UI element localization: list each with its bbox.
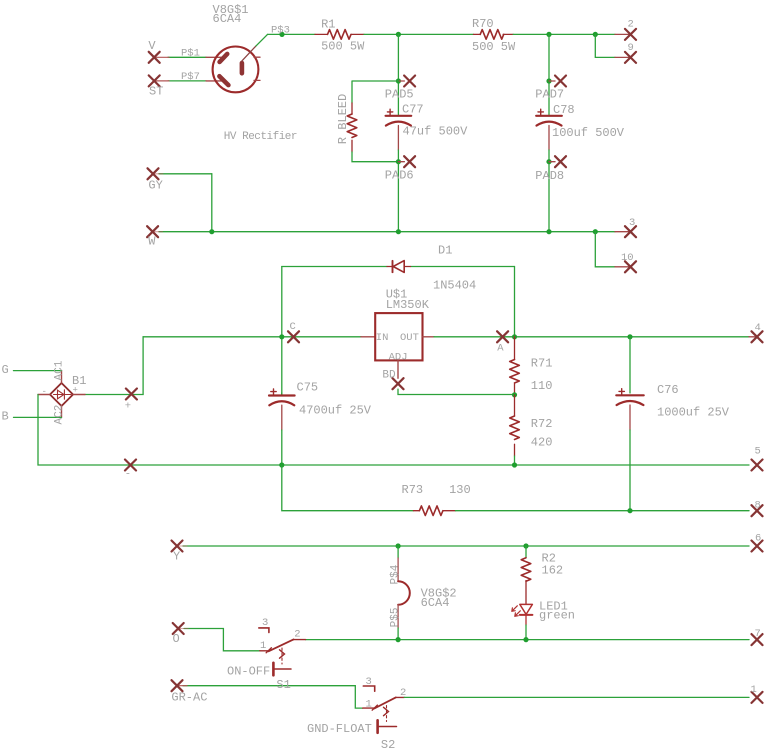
switch S2 pin 3 [363, 686, 374, 691]
svg-text:PAD8: PAD8 [535, 169, 564, 183]
junction rail7-V8G$2 [396, 637, 401, 642]
capacitor C76 upper wire [629, 337, 631, 393]
svg-text:R72: R72 [531, 417, 553, 431]
wire net O [178, 629, 260, 651]
pin 1 X [752, 692, 763, 703]
pin PAD8 lead [549, 161, 555, 163]
junction rail7-LED [523, 637, 528, 642]
wire P$3 diagonal [256, 34, 268, 46]
wire R.BLEED bottom [352, 152, 398, 162]
svg-text:R71: R71 [531, 357, 553, 371]
svg-text:3: 3 [262, 617, 268, 629]
wire net Y rail [177, 545, 749, 547]
wire to pin 10 [595, 232, 615, 267]
svg-text:2: 2 [628, 19, 634, 31]
diode D1 [387, 261, 411, 273]
svg-text:S1: S1 [276, 678, 290, 692]
switch S1 lever [269, 639, 294, 651]
svg-text:6: 6 [755, 533, 761, 545]
junction W-C77 [396, 229, 401, 234]
net label X GY [148, 168, 159, 179]
regulator U1 LM350K box [375, 313, 422, 360]
bridge B1 pin AC1 [61, 371, 63, 383]
capacitor C75 plus [271, 389, 276, 394]
wire net rail7 [306, 639, 750, 641]
pin 4 X [752, 331, 763, 342]
pin 3 lead [615, 231, 631, 233]
capacitor C75 lower lead [281, 405, 283, 430]
bridge B1 pin AC2 [61, 406, 63, 417]
svg-text:7: 7 [755, 628, 761, 640]
svg-text:PAD7: PAD7 [535, 88, 564, 102]
resistor R72 [510, 395, 520, 465]
capacitor C78 bottom plate arc [537, 122, 562, 126]
wire P$3 to R1 [268, 33, 316, 35]
svg-text:BD: BD [382, 370, 396, 382]
pad PAD7 X [555, 76, 566, 87]
capacitor C77 lower lead [397, 126, 399, 151]
svg-text:110: 110 [531, 379, 553, 393]
net label X V [149, 52, 160, 63]
net label X W [147, 226, 158, 237]
wire D1 right drop [514, 267, 516, 337]
svg-text:PAD6: PAD6 [385, 169, 414, 183]
wire mid rail left [143, 336, 361, 338]
capacitor C75 top plate [269, 394, 295, 396]
svg-text:O: O [173, 632, 180, 646]
capacitor C76 plus [619, 389, 624, 394]
net label X minus [125, 460, 136, 471]
svg-text:ON-OFF: ON-OFF [227, 665, 270, 679]
wire net G [14, 370, 62, 372]
regulator U1 pin ADJ lead [397, 360, 399, 378]
switch S1 actuator [273, 663, 291, 676]
pin P$7 of V8G$1 [206, 80, 224, 82]
bridge B1 pin plus [73, 394, 85, 396]
switch S2 actuator [378, 720, 397, 733]
junction C75 bottom [279, 462, 284, 467]
svg-text:Y: Y [173, 550, 180, 564]
bridge B1 internal diode [54, 390, 72, 399]
svg-text:1000uf 25V: 1000uf 25V [657, 406, 730, 420]
svg-text:S2: S2 [381, 738, 395, 750]
junction W-C78 [546, 229, 551, 234]
switch S1 pin 2 [294, 639, 306, 641]
switch S1 spring [280, 650, 285, 658]
junction PAD8 [546, 159, 551, 164]
svg-text:GR-AC: GR-AC [171, 690, 207, 704]
junction OUT-C76 [627, 334, 632, 339]
svg-text:R73: R73 [402, 483, 424, 497]
svg-text:2: 2 [294, 629, 300, 641]
svg-text:500 5W: 500 5W [472, 40, 516, 54]
wire mid rail right [434, 336, 749, 338]
wire bridge plus riser [85, 337, 143, 395]
svg-text:R1: R1 [321, 18, 335, 32]
capacitor C76 bottom plate arc [617, 401, 644, 405]
junction pins 2-9 [593, 32, 598, 37]
pin 4 lead [749, 336, 757, 338]
net label X O [173, 623, 184, 634]
switch S2 link dashed [386, 706, 388, 722]
switch S2 spring [384, 707, 389, 715]
svg-text:C78: C78 [553, 103, 575, 117]
tube V8G$2 pin P$5 [397, 605, 399, 640]
capacitor C78 lower lead [548, 126, 550, 151]
svg-text:P$3: P$3 [271, 25, 290, 37]
svg-text:C75: C75 [297, 381, 319, 395]
svg-text:5: 5 [755, 445, 761, 457]
tube V8G$1 anode bar [240, 63, 245, 73]
capacitor C77 top plate [386, 115, 412, 117]
wire R73 riser [282, 465, 414, 511]
svg-text:130: 130 [449, 483, 471, 497]
svg-text:R BLEED: R BLEED [336, 94, 350, 144]
resistor R1 [315, 30, 364, 40]
capacitor C75 bottom plate arc [269, 401, 294, 405]
pin PAD7 lead [549, 80, 555, 82]
tube V8G$2 heater arc [398, 581, 410, 604]
junction PAD6 [396, 159, 401, 164]
svg-text:C76: C76 [657, 383, 679, 397]
svg-text:1: 1 [751, 684, 757, 696]
pin 10 lead [615, 266, 631, 268]
junction R72 bottom [512, 462, 517, 467]
svg-text:W: W [148, 235, 156, 249]
wire GY drop [211, 174, 213, 232]
svg-text:6CA4: 6CA4 [421, 596, 450, 610]
junction Y-R2 [523, 543, 528, 548]
capacitor C76 top plate [616, 394, 643, 396]
junction GY-W [209, 229, 214, 234]
svg-text:-: - [42, 387, 47, 397]
svg-text:HV Rectifier: HV Rectifier [224, 131, 297, 143]
resistor R71 [510, 337, 520, 395]
svg-text:P$1: P$1 [181, 47, 200, 59]
regulator U1 pin OUT lead [423, 336, 435, 338]
wire C75 to minus rail [281, 430, 283, 465]
pad PAD5 X [404, 76, 415, 87]
wire D1 left drop [281, 267, 283, 395]
svg-text:3: 3 [366, 676, 372, 688]
svg-text:C77: C77 [402, 103, 424, 117]
svg-text:+: + [125, 401, 131, 413]
wire net ST to tube P$7 [154, 80, 206, 82]
net label X GR-AC [172, 680, 183, 691]
wire R1 to C77 node [364, 33, 474, 35]
net label X Y [172, 541, 183, 552]
pin 9 lead [615, 56, 631, 58]
junction Y-V8G$2 [396, 543, 401, 548]
junction C76 bottom [627, 508, 632, 513]
wire D1 rail [282, 266, 515, 268]
svg-text:OUT: OUT [400, 332, 419, 344]
pin 9 X [625, 52, 636, 63]
switch S2 pin 2 [396, 696, 405, 698]
wire R70 to pin2 [513, 33, 615, 35]
svg-text:IN: IN [376, 332, 389, 344]
bridge B1 diamond [50, 383, 73, 406]
svg-text:C: C [290, 321, 296, 333]
svg-text:10: 10 [621, 252, 634, 264]
pin BD X [393, 378, 404, 389]
svg-text:GND-FLOAT: GND-FLOAT [307, 722, 372, 736]
svg-text:R70: R70 [472, 17, 494, 31]
wire C78 to PAD8 [548, 150, 550, 232]
wire net W rail [153, 231, 615, 233]
tube V8G$1 right stub pins [254, 57, 260, 80]
svg-text:PAD5: PAD5 [385, 87, 414, 101]
net label X plus [126, 389, 137, 400]
switch S1 pin 3 [259, 628, 269, 633]
svg-text:V: V [148, 39, 156, 53]
junction PAD5 [396, 78, 401, 83]
wire C77 column upper [397, 34, 399, 114]
capacitor C78 plus [538, 109, 543, 114]
pad PAD8 X [555, 156, 566, 167]
wire R73 to pin 8 [456, 510, 750, 512]
wire net GR-AC [177, 686, 363, 708]
junction pins 3-10 [593, 229, 598, 234]
wire minus rail [38, 395, 749, 466]
LED LED1 emission arrows [512, 606, 521, 617]
svg-text:1: 1 [260, 640, 266, 652]
svg-text:100uf 500V: 100uf 500V [552, 126, 625, 140]
tube V8G$1 heater bar lower [219, 76, 228, 85]
bridge B1 pin minus [38, 394, 50, 396]
net label X C [288, 331, 299, 342]
pin P$3 diagonal lead [242, 46, 256, 61]
svg-text:500 5W: 500 5W [321, 40, 365, 54]
svg-text:2: 2 [400, 687, 406, 699]
svg-text:1N5404: 1N5404 [433, 279, 476, 293]
capacitor C75 wire upper [281, 393, 283, 395]
svg-text:P$4: P$4 [390, 564, 402, 584]
wire C78 column upper [548, 34, 550, 114]
svg-text:8: 8 [755, 500, 761, 512]
svg-text:4: 4 [755, 322, 761, 334]
wire to pin 9 [595, 34, 615, 57]
junction C78 top [546, 32, 551, 37]
pin PAD5 lead [398, 80, 404, 82]
net label X A [497, 331, 508, 342]
svg-text:LM350K: LM350K [386, 298, 430, 312]
pin 10 X [625, 261, 636, 272]
svg-text:162: 162 [542, 564, 564, 578]
junction PAD7 [546, 78, 551, 83]
svg-text:ST: ST [149, 85, 163, 99]
switch S1 link dashed [281, 648, 283, 664]
capacitor C76 lower lead [629, 405, 631, 430]
svg-text:47uf 500V: 47uf 500V [403, 125, 469, 139]
pad PAD6 X [404, 156, 415, 167]
resistor R2 [521, 546, 531, 604]
regulator U1 pin IN lead [361, 336, 375, 338]
net label X ST [149, 75, 160, 86]
svg-text:B: B [2, 410, 9, 424]
switch S2 pin 1 [363, 705, 378, 710]
svg-text:P$7: P$7 [181, 71, 200, 83]
svg-text:4700uf 25V: 4700uf 25V [299, 404, 372, 418]
svg-text:3: 3 [629, 217, 635, 229]
wire R.BLEED top [352, 81, 398, 103]
tube V8G$1 heater bar upper [220, 54, 228, 62]
svg-text:-: - [125, 469, 131, 481]
switch S2 lever [374, 697, 395, 708]
svg-text:6CA4: 6CA4 [213, 12, 242, 26]
pin PAD6 lead [398, 161, 404, 163]
svg-text:9: 9 [628, 42, 634, 54]
tube V8G$2 pin P$4 [397, 546, 399, 581]
wire net GY [153, 173, 212, 175]
wire C76 to R73 rail [629, 430, 631, 511]
junction R71-R72 [512, 392, 517, 397]
junction C77 top [396, 32, 401, 37]
LED LED1 [520, 604, 533, 625]
wire LED to rail7 [525, 625, 527, 640]
pin 8 X [752, 505, 763, 516]
capacitor C78 top plate [536, 115, 562, 117]
pin 5 X [752, 460, 763, 471]
wire net B [14, 416, 62, 418]
svg-text:P$5: P$5 [390, 607, 402, 627]
svg-text:green: green [539, 608, 575, 622]
switch S1 pin 1 [260, 648, 272, 653]
tube V8G$1 envelope circle [213, 47, 259, 93]
pin P$1 of V8G$1 [206, 56, 224, 58]
pin 7 X [752, 634, 763, 645]
svg-text:GY: GY [148, 179, 162, 193]
wire S2 to pin 1 edge [404, 696, 749, 698]
pin 6 X [752, 541, 763, 552]
svg-text:+: + [73, 386, 78, 396]
junction C75 top [279, 334, 284, 339]
capacitor C77 plus [387, 109, 392, 114]
svg-text:420: 420 [531, 436, 553, 450]
svg-text:ADJ: ADJ [389, 351, 408, 363]
svg-text:G: G [2, 363, 9, 377]
resistor R.BLEED [347, 103, 357, 152]
wire net V to tube P$1 [154, 56, 206, 58]
capacitor C77 bottom plate arc [386, 122, 411, 126]
junction OUT-R71 [512, 334, 517, 339]
svg-text:AC2: AC2 [53, 405, 65, 425]
pin 3 X [625, 226, 636, 237]
svg-text:D1: D1 [438, 244, 452, 258]
junction P$3 [279, 32, 284, 37]
wire C77 to PAD6 [397, 150, 399, 232]
wire ADJ to divider [398, 389, 515, 394]
pin 2 lead [615, 33, 631, 35]
svg-text:AC1: AC1 [53, 360, 65, 380]
svg-text:1: 1 [366, 699, 372, 711]
resistor R73 [413, 506, 455, 516]
pin 2 X [625, 29, 636, 40]
svg-text:A: A [497, 342, 504, 354]
resistor R70 [474, 30, 514, 40]
